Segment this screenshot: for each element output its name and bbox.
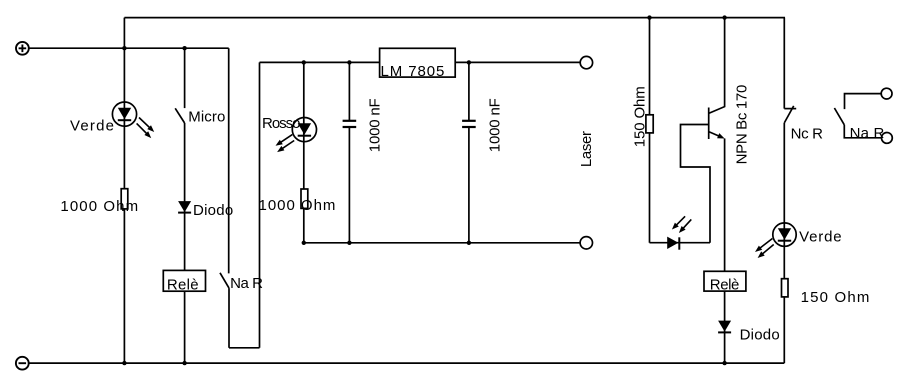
photodiode D6 receiver [667, 216, 691, 249]
svg-text:Verde: Verde [70, 117, 114, 134]
LED D4 Verde [755, 223, 796, 258]
terminal - negative input [16, 357, 29, 370]
diode D5 Diodo [718, 321, 731, 333]
wire photodiode row [650, 242, 711, 244]
wire riser to regulator section [259, 62, 261, 347]
wire positive input rail [29, 47, 229, 49]
switch blade Micro [175, 108, 184, 123]
wire Na R switch upper drop [228, 48, 230, 273]
terminal Laser - [580, 237, 592, 249]
junction top rail / R3 [647, 15, 651, 19]
wire resistor R3 branch [649, 18, 651, 243]
svg-text:1000 Ohm: 1000 Ohm [259, 197, 336, 214]
capacitor C2 plates [462, 121, 476, 127]
switch Nc R contact tick [784, 108, 796, 110]
resistor R2 1000 Ohm [301, 189, 308, 208]
junction reg bottom / C2 [467, 241, 471, 245]
capacitor C1 plates [343, 121, 357, 127]
svg-text:150 Ohm: 150 Ohm [801, 289, 870, 306]
transistor Q1 collector [709, 18, 725, 114]
switch blade Na R left [220, 273, 229, 288]
wire Na R output contact top [845, 94, 882, 110]
svg-text:1000 nF: 1000 nF [487, 98, 504, 152]
svg-text:1000 Ohm: 1000 Ohm [60, 198, 138, 215]
terminal + positive input [16, 42, 29, 55]
switch blade Nc R [784, 106, 793, 123]
wire Na R output contact bottom [844, 125, 881, 138]
relay coil K2 box [704, 271, 746, 291]
terminal Laser + [580, 56, 592, 68]
svg-text:Rosso: Rosso [262, 115, 301, 132]
svg-text:Diodo: Diodo [740, 327, 780, 344]
transistor Q1 emitter arrowhead [717, 133, 725, 138]
wire bottom rail [29, 362, 785, 364]
transistor Q1 base bar [708, 108, 710, 140]
svg-text:Laser: Laser [578, 131, 595, 167]
wire Na R switch lower drop [228, 288, 230, 348]
resistor R1 1000 Ohm [121, 189, 128, 209]
junction reg input / C1 [347, 60, 351, 64]
svg-text:150 Ohm: 150 Ohm [632, 86, 649, 147]
LED D2 Rosso [276, 118, 317, 153]
junction reg output / C2 [467, 60, 471, 64]
wire emitter branch down [724, 139, 726, 364]
wire capacitor C2 bottom lead [468, 128, 470, 243]
svg-text:Diodo: Diodo [193, 202, 233, 219]
diode D3 Diodo [178, 201, 191, 213]
junction node A (+rail / D1) [122, 46, 126, 50]
terminal Na R contact bottom [882, 133, 893, 144]
wire regulator output rail [455, 61, 580, 63]
wire LED D4 branch [783, 123, 785, 363]
switch blade Na R right [834, 108, 844, 125]
wire Micro switch lower segment [184, 123, 186, 363]
relay coil K1 box [163, 270, 205, 291]
junction reg bottom / C1 [347, 241, 351, 245]
junction node B (+rail / Micro) [182, 46, 186, 50]
wire top rail [124, 17, 785, 19]
transistor Q1 emitter [709, 132, 719, 137]
wire Nc R switch upper drop [783, 18, 785, 109]
resistor R4 150 Ohm [782, 279, 789, 297]
junction reg bottom / D2 [302, 241, 306, 245]
svg-text:Na R: Na R [230, 275, 263, 292]
wire capacitor C1 bottom lead [348, 128, 350, 243]
svg-text:Relè: Relè [167, 276, 199, 293]
junction reg input / D2 [302, 60, 306, 64]
wire capacitor C2 top lead [468, 62, 470, 120]
junction top rail / Q1 collector [722, 15, 726, 19]
svg-text:Nc R: Nc R [791, 125, 824, 142]
resistor R3 150 Ohm [646, 115, 653, 133]
wire Micro switch upper segment [184, 48, 186, 108]
wire regulator bottom rail [304, 242, 580, 244]
regulator U1 LM 7805 box [380, 48, 456, 77]
wire LED D1 branch [123, 48, 125, 363]
svg-text:Micro: Micro [188, 109, 225, 126]
LED D1 Verde [112, 102, 154, 138]
svg-text:NPN Bc 170: NPN Bc 170 [733, 85, 750, 165]
svg-text:Relè: Relè [710, 277, 740, 294]
wire LED D2 branch [303, 62, 305, 242]
wire regulator input rail [260, 61, 380, 63]
wire capacitor C1 top lead [348, 62, 350, 120]
terminal Na R contact top [881, 88, 892, 99]
svg-text:1000 nF: 1000 nF [367, 98, 384, 152]
junction bottom rail / relay K1 [182, 361, 186, 365]
svg-text:LM 7805: LM 7805 [381, 63, 445, 80]
svg-text:Na R: Na R [850, 125, 885, 142]
wire left riser from node A to top rail [123, 18, 125, 49]
wire bottom of Na R loop [229, 347, 260, 349]
wire base network of Q1 [681, 125, 711, 243]
junction bottom rail / D1 [122, 361, 126, 365]
junction bottom rail / D5 [722, 361, 726, 365]
svg-text:Verde: Verde [799, 229, 842, 246]
